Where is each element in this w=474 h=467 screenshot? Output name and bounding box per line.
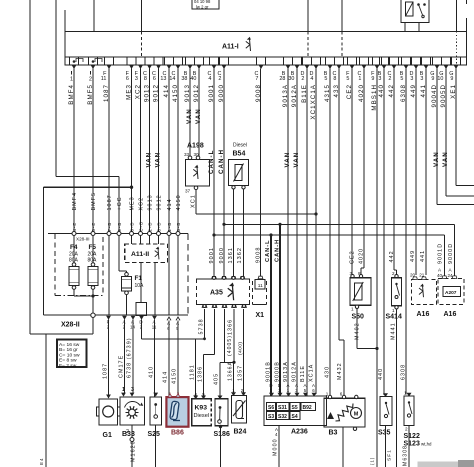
svg-text:wt,hd: wt,hd (421, 442, 432, 447)
svg-text:1: 1 (122, 387, 125, 393)
svg-text:1362: 1362 (237, 247, 243, 263)
svg-text:A= 16 sw: A= 16 sw (59, 342, 80, 348)
svg-text:C-D: C-D (138, 221, 143, 232)
svg-text:442: 442 (389, 250, 395, 262)
svg-text:A35: A35 (210, 290, 223, 297)
svg-text:CAN-H: CAN-H (275, 239, 281, 262)
svg-text:(4005): (4005) (227, 335, 233, 356)
svg-text:(1): (1) (370, 457, 375, 465)
svg-text:6308: 6308 (401, 364, 407, 380)
svg-text:4150: 4150 (176, 194, 182, 210)
svg-text:1087: 1087 (107, 194, 113, 210)
svg-text:A11-II: A11-II (131, 251, 149, 258)
svg-text:S32: S32 (278, 414, 287, 420)
svg-text:9001D: 9001D (438, 243, 444, 264)
svg-text:11: 11 (101, 76, 107, 82)
svg-text:7: 7 (255, 76, 258, 82)
svg-text:6: 6 (126, 76, 129, 82)
svg-text:BMF5: BMF5 (91, 192, 97, 211)
svg-text:449: 449 (410, 250, 416, 262)
svg-text:9000D: 9000D (448, 243, 454, 264)
svg-text:(400): (400) (238, 342, 244, 355)
svg-text:ME3: ME3 (130, 196, 136, 210)
svg-text:430: 430 (325, 366, 331, 378)
svg-text:S31: S31 (278, 405, 287, 411)
svg-text:CAN-H: CAN-H (218, 149, 225, 174)
svg-text:G1: G1 (103, 432, 112, 439)
svg-text:9013: 9013 (148, 194, 154, 210)
svg-text:2: 2 (218, 76, 221, 82)
svg-text:405: 405 (214, 373, 220, 385)
svg-text:S414: S414 (386, 314, 402, 321)
svg-text:441: 441 (420, 250, 426, 262)
svg-text:M432: M432 (337, 362, 343, 380)
svg-text:414: 414 (163, 371, 169, 383)
svg-text:3: 3 (378, 76, 381, 82)
svg-text:10: 10 (437, 76, 443, 82)
svg-text:1-B: 1-B (167, 222, 172, 232)
svg-text:9-B: 9-B (117, 222, 122, 232)
svg-text:S35: S35 (378, 430, 391, 437)
svg-text:S25: S25 (148, 431, 161, 438)
svg-text:B= 16 gr: B= 16 gr (59, 347, 78, 353)
svg-text:X28-III: X28-III (76, 237, 90, 242)
svg-text:4020: 4020 (359, 248, 365, 264)
svg-text:9012A: 9012A (291, 361, 297, 382)
svg-text:9012: 9012 (157, 194, 163, 210)
svg-text:A198: A198 (187, 143, 204, 150)
svg-text:C= 10 sw: C= 10 sw (59, 352, 80, 358)
svg-text:1: 1 (70, 77, 73, 83)
svg-text:440: 440 (378, 368, 384, 380)
svg-text:9: 9 (450, 76, 453, 82)
svg-text:9000: 9000 (219, 247, 225, 263)
svg-text:X28-II: X28-II (61, 322, 80, 329)
svg-text:S186: S186 (214, 431, 230, 438)
svg-text:40: 40 (437, 273, 443, 278)
svg-text:04 10 98: 04 10 98 (194, 0, 211, 4)
svg-text:M441: M441 (391, 322, 397, 340)
svg-text:3: 3 (131, 387, 134, 393)
svg-text:3: 3 (410, 76, 413, 82)
svg-text:M: M (354, 412, 359, 418)
svg-text:1366: 1366 (228, 319, 234, 335)
svg-text:M402: M402 (355, 322, 361, 340)
svg-text:7-B: 7-B (107, 222, 112, 232)
svg-text:4-E: 4-E (72, 222, 77, 232)
svg-text:X1: X1 (256, 312, 265, 319)
svg-text:XC1A: XC1A (308, 364, 314, 382)
svg-text:B54: B54 (233, 151, 246, 158)
svg-text:S6: S6 (268, 405, 274, 411)
svg-text:9001B: 9001B (265, 361, 271, 382)
svg-text:28: 28 (279, 76, 285, 82)
svg-text:414: 414 (167, 198, 173, 210)
svg-text:M1620: M1620 (131, 440, 137, 462)
svg-text:1181: 1181 (190, 364, 196, 380)
svg-text:37: 37 (185, 189, 191, 194)
svg-text:6738 (6739): 6738 (6739) (127, 337, 133, 378)
svg-text:4150: 4150 (172, 368, 178, 384)
svg-text:2: 2 (388, 76, 391, 82)
svg-text:F1: F1 (135, 275, 143, 282)
svg-text:1386: 1386 (198, 366, 204, 382)
svg-text:F= 2 sw: F= 2 sw (59, 363, 77, 369)
svg-text:9000B: 9000B (274, 361, 280, 382)
svg-text:1357: 1357 (238, 365, 244, 381)
svg-text:CE2: CE2 (350, 250, 356, 264)
svg-text:5-E: 5-E (91, 222, 96, 232)
svg-text:CAN-L: CAN-L (265, 239, 271, 262)
svg-text:2: 2 (301, 76, 304, 82)
svg-text:S3: S3 (268, 414, 274, 420)
svg-text:8: 8 (144, 76, 147, 82)
svg-text:8-D: 8-D (129, 221, 134, 231)
svg-text:2: 2 (89, 77, 92, 83)
svg-text:A11-I: A11-I (222, 44, 239, 51)
svg-text:B86: B86 (171, 430, 184, 437)
svg-text:3: 3 (420, 76, 423, 82)
svg-text:410: 410 (149, 366, 155, 378)
svg-text:A236: A236 (291, 429, 308, 436)
svg-text:2-D: 2-D (147, 221, 152, 231)
svg-text:2: 2 (405, 427, 408, 432)
svg-text:9001: 9001 (209, 247, 215, 263)
svg-text:+CC: +CC (117, 196, 123, 210)
svg-text:5: 5 (400, 76, 403, 82)
svg-text:S50: S50 (352, 314, 365, 321)
svg-text:9008: 9008 (256, 247, 262, 263)
svg-text:9008: 9008 (255, 84, 262, 102)
svg-text:13: 13 (160, 76, 166, 82)
svg-text:1: 1 (404, 391, 407, 396)
svg-text:K93: K93 (195, 405, 208, 412)
svg-text:E4: E4 (39, 457, 44, 465)
svg-text:B3: B3 (329, 430, 338, 437)
svg-text:40: 40 (190, 76, 196, 82)
svg-text:M6308: M6308 (403, 445, 409, 466)
svg-text:9: 9 (431, 76, 434, 82)
svg-text:A207: A207 (445, 290, 457, 296)
svg-text:6: 6 (340, 392, 343, 397)
svg-text:1: 1 (351, 307, 354, 312)
svg-text:5: 5 (346, 76, 349, 82)
svg-text:14: 14 (169, 76, 175, 82)
svg-text:B24: B24 (234, 429, 247, 436)
svg-text:9013A: 9013A (283, 361, 289, 382)
svg-text:1087: 1087 (103, 363, 109, 379)
svg-text:24: 24 (447, 273, 453, 278)
svg-text:6-D: 6-D (156, 221, 161, 231)
svg-text:B11E: B11E (300, 365, 306, 382)
svg-text:1: 1 (358, 76, 361, 82)
svg-text:A16: A16 (417, 311, 430, 318)
svg-text:CM17E: CM17E (119, 355, 125, 378)
svg-text:XC2: XC2 (139, 197, 145, 211)
svg-text:4: 4 (310, 76, 313, 82)
svg-text:8: 8 (333, 76, 336, 82)
svg-text:3-B: 3-B (176, 222, 181, 232)
svg-text:3: 3 (135, 76, 138, 82)
svg-text:Diesel: Diesel (194, 413, 210, 419)
svg-text:11: 11 (258, 283, 263, 289)
svg-text:10A: 10A (135, 283, 145, 289)
svg-text:4: 4 (208, 76, 211, 82)
svg-text:S5: S5 (292, 405, 298, 411)
svg-text:BMF4: BMF4 (72, 192, 78, 211)
svg-text:S4: S4 (292, 414, 298, 420)
svg-text:A16: A16 (444, 311, 457, 318)
svg-text:2: 2 (126, 429, 129, 435)
svg-text:5: 5 (324, 76, 327, 82)
svg-text:F5: F5 (89, 244, 97, 251)
svg-text:B92: B92 (303, 405, 312, 411)
svg-text:1366A: 1366A (228, 361, 234, 381)
svg-text:30: 30 (288, 76, 294, 82)
svg-text:6: 6 (153, 76, 156, 82)
svg-text:9: 9 (371, 76, 374, 82)
svg-text:1: 1 (326, 392, 329, 397)
svg-text:SF1: SF1 (387, 449, 393, 461)
svg-text:CAN-L: CAN-L (208, 150, 215, 175)
svg-text:1: 1 (392, 308, 395, 313)
svg-text:M000: M000 (273, 438, 279, 456)
svg-text:Diesel: Diesel (233, 143, 247, 149)
svg-text:lw 2 gr: lw 2 gr (196, 5, 209, 10)
svg-text:38: 38 (181, 76, 187, 82)
svg-text:E= 8 sw: E= 8 sw (59, 358, 77, 364)
svg-text:5738: 5738 (199, 318, 205, 334)
svg-text:S122: S122 (404, 433, 420, 440)
